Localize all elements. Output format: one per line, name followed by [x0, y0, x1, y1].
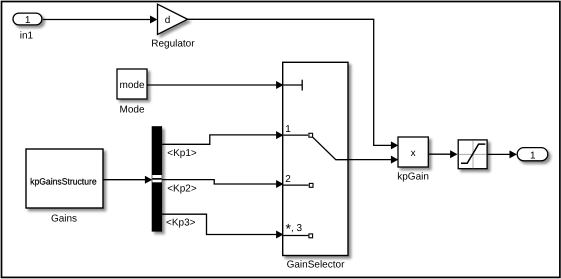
svg-text:1: 1 [25, 15, 31, 26]
svg-text:kpGainsStructure: kpGainsStructure [30, 177, 97, 187]
svg-text:<Kp3>: <Kp3> [166, 217, 196, 228]
svg-text:, 3: , 3 [291, 223, 303, 234]
svg-text:kpGain: kpGain [397, 172, 429, 183]
svg-text:<Kp1>: <Kp1> [167, 148, 197, 159]
svg-text:mode: mode [119, 80, 144, 91]
svg-text:Mode: Mode [119, 105, 144, 116]
svg-text:1: 1 [530, 151, 536, 162]
svg-text:Regulator: Regulator [151, 38, 195, 49]
svg-text:Gains: Gains [51, 214, 77, 225]
svg-text:2: 2 [285, 174, 291, 185]
svg-text:1: 1 [285, 124, 291, 135]
svg-text:<Kp2>: <Kp2> [167, 184, 197, 195]
svg-text:d: d [165, 15, 171, 26]
svg-text:x: x [411, 148, 416, 159]
svg-text:GainSelector: GainSelector [287, 260, 345, 271]
svg-text:in1: in1 [20, 31, 34, 42]
